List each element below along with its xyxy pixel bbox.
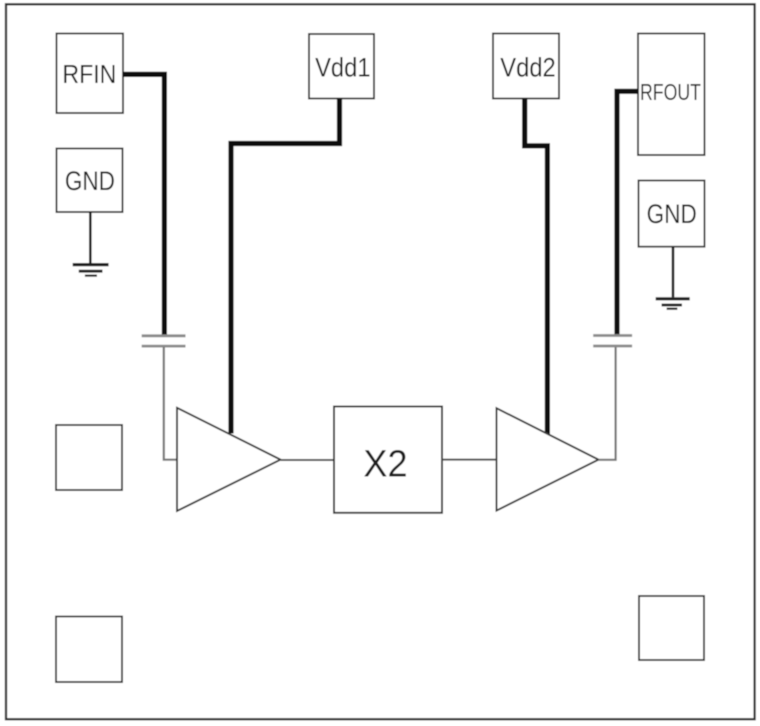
wire A2 output to output capacitor (599, 347, 616, 460)
capacitor C1 (input DC block) (142, 336, 186, 346)
svg-text:RFIN: RFIN (62, 61, 116, 90)
amplifier A1 (177, 408, 281, 511)
svg-text:RFOUT: RFOUT (640, 80, 701, 106)
pad GND (input side) (57, 149, 123, 213)
wire Vdd2 pad to amplifier A2 (525, 99, 548, 435)
pad RFIN (57, 34, 124, 114)
pad Vdd2 (493, 34, 559, 99)
wire RFOUT pad to output capacitor (617, 91, 638, 335)
svg-text:Vdd2: Vdd2 (500, 53, 555, 83)
bond pad (bottom left) (56, 617, 122, 683)
wire X2 to amplifier A2 input (442, 459, 496, 461)
bond pad (left middle) (56, 425, 122, 490)
pad Vdd1 (309, 34, 374, 99)
frequency doubler X2 (334, 407, 442, 513)
svg-text:GND: GND (65, 167, 115, 196)
wire Vdd1 pad to amplifier A1 (231, 99, 340, 434)
wire C1 to amplifier A1 input (164, 347, 177, 460)
svg-text:Vdd1: Vdd1 (315, 53, 370, 83)
ground symbol (input side) (73, 212, 109, 276)
svg-text:GND: GND (647, 201, 697, 230)
svg-text:X2: X2 (363, 441, 407, 484)
capacitor C2 (output DC block) (593, 336, 632, 347)
pad RFOUT (638, 34, 705, 156)
wire A1 output to X2 (281, 459, 335, 461)
bond pad (bottom right) (639, 596, 704, 660)
ground symbol (output side) (656, 247, 690, 309)
pad GND (output side) (639, 181, 705, 247)
wire RFIN pad to input capacitor (123, 74, 164, 336)
amplifier A2 (497, 408, 599, 510)
